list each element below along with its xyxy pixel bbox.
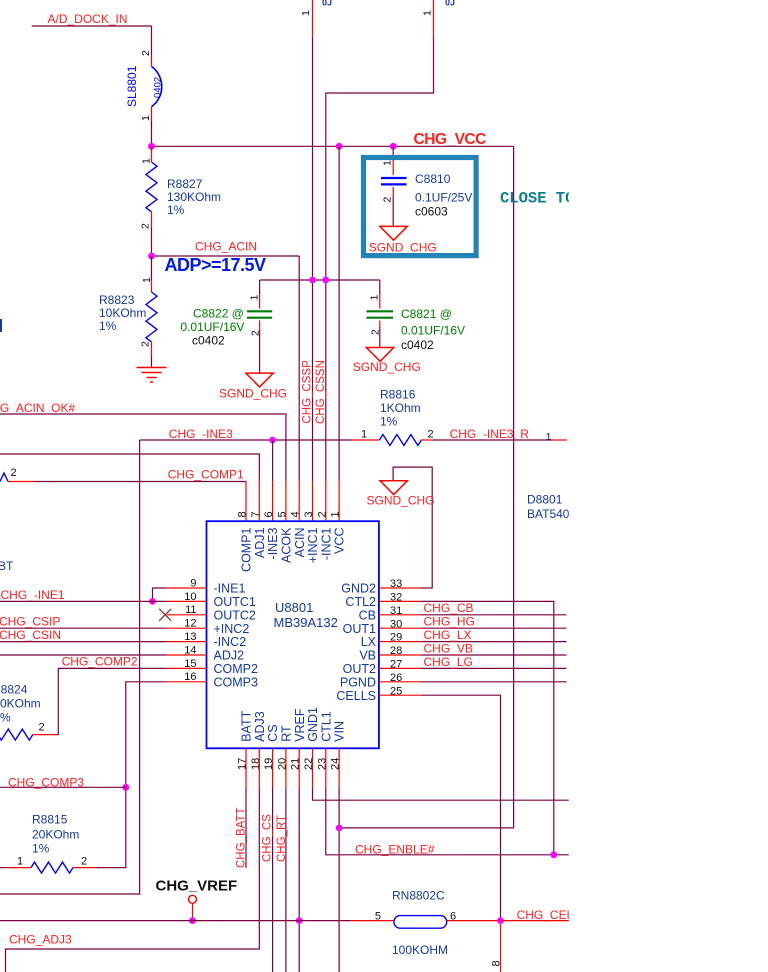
svg-text:C8821 @: C8821 @ xyxy=(401,307,452,321)
svg-text:0.01UF/16V: 0.01UF/16V xyxy=(401,324,465,338)
resistor R8827 body xyxy=(146,162,157,212)
svg-text:PGND: PGND xyxy=(340,675,376,689)
svg-text:CHG_ACIN_OK#: CHG_ACIN_OK# xyxy=(0,401,76,415)
wire net of pin 27 to right edge xyxy=(421,667,567,669)
svg-text:CHG_CS: CHG_CS xyxy=(262,814,274,862)
junction VIN at CHG_VCC xyxy=(336,825,343,832)
ic U8801 pin 33 stub xyxy=(379,587,421,589)
svg-text:CHG_VREF: CHG_VREF xyxy=(156,878,238,895)
svg-text:1%: 1% xyxy=(167,203,185,217)
svg-text:2: 2 xyxy=(382,197,394,203)
svg-text:10KOhm: 10KOhm xyxy=(99,306,146,320)
svg-text:17: 17 xyxy=(237,758,249,770)
svg-text:CTL2: CTL2 xyxy=(345,595,376,609)
resistor R8823 pin 2 stub xyxy=(151,342,153,356)
svg-text:R8815: R8815 xyxy=(32,813,68,827)
junction CHG_ACIN xyxy=(148,253,155,260)
resistor R8824 pin 2 stub xyxy=(33,734,57,736)
wire ADJ2 to left edge xyxy=(0,654,166,656)
svg-text:CHG_CSIP: CHG_CSIP xyxy=(0,614,60,628)
ic U8801 pin 25 stub xyxy=(379,694,421,696)
wire VIN pin drop xyxy=(338,788,340,972)
wire CHG_CSSN jog xyxy=(326,38,434,481)
wire CHG_CSSN top stub pin 1 of offsheet part xyxy=(433,0,435,38)
svg-text:CLOSE TO: CLOSE TO xyxy=(500,190,574,208)
svg-text:CHG_ADJ3: CHG_ADJ3 xyxy=(9,933,72,947)
wire CHG_VCC horizontal rail xyxy=(152,145,514,147)
wire GND1 to right edge xyxy=(313,788,571,800)
svg-text:2: 2 xyxy=(140,223,152,229)
svg-text:1: 1 xyxy=(361,429,367,441)
svg-text:SL8801: SL8801 xyxy=(125,65,139,107)
svg-text:6: 6 xyxy=(263,511,275,517)
svg-text:8: 8 xyxy=(237,511,249,517)
wire R8815 pin 1 to left edge xyxy=(0,867,7,869)
svg-text:1: 1 xyxy=(17,856,23,868)
svg-text:CHG_CSSP: CHG_CSSP xyxy=(302,360,314,424)
capacitor C8810 plates xyxy=(381,178,407,184)
ic U8801 pin 15 stub xyxy=(166,667,207,669)
svg-text:20: 20 xyxy=(276,758,288,770)
svg-text:1: 1 xyxy=(141,158,153,164)
svg-text:CHG_-INE3: CHG_-INE3 xyxy=(169,427,233,441)
svg-text:1: 1 xyxy=(140,115,152,121)
ic U8801 pin 1 stub xyxy=(338,481,340,521)
wire CTL2 to CHG_ENBLE# xyxy=(421,601,554,854)
wire A/D_DOCK_IN drop to SL8801 xyxy=(151,26,153,55)
svg-text:-INE3: -INE3 xyxy=(266,527,280,559)
wire pin 6 drop xyxy=(272,440,274,481)
svg-text:OUT1: OUT1 xyxy=(343,622,376,636)
svg-text:7: 7 xyxy=(250,511,262,517)
svg-text:COMP3: COMP3 xyxy=(214,675,259,689)
ic U8801 pin 8 stub xyxy=(245,481,247,521)
svg-text:CHG_HG: CHG_HG xyxy=(424,615,475,629)
ic U8801 pin 5 stub xyxy=(285,481,287,521)
wire CHG_COMP2 xyxy=(57,668,166,734)
svg-text:20KOhm: 20KOhm xyxy=(32,828,79,842)
ic U8801 pin 17 stub xyxy=(245,748,247,788)
junction CHG_-INE3 at pin 6 xyxy=(269,437,276,444)
ic U8801 pin 32 stub xyxy=(379,600,421,602)
svg-text:1: 1 xyxy=(141,277,153,283)
svg-text:R8827: R8827 xyxy=(167,177,203,191)
svg-text:CHG_-INE1: CHG_-INE1 xyxy=(1,588,65,602)
svg-text:0J: 0J xyxy=(445,0,455,8)
ic U8801 pin 30 stub xyxy=(379,627,421,629)
capacitor C8822 pin 2 stub xyxy=(259,321,261,331)
wire C8821 to ground xyxy=(379,327,381,348)
op-amp controller U8801 body xyxy=(207,521,379,748)
svg-text:1%: 1% xyxy=(380,415,398,429)
svg-text:SGND_CHG: SGND_CHG xyxy=(367,494,435,508)
ic U8801 pin 21 stub xyxy=(298,748,300,788)
wire CHG_COMP3 to left edge xyxy=(0,786,126,788)
wire decoupling bus xyxy=(260,279,380,281)
svg-text:OUT2: OUT2 xyxy=(343,662,376,676)
capacitor C8810 top wire xyxy=(392,146,394,158)
ic U8801 pin 29 stub xyxy=(379,641,421,643)
wire CHG_COMP1 xyxy=(35,480,246,482)
svg-text:5: 5 xyxy=(375,911,381,923)
svg-text:GND1: GND1 xyxy=(306,707,320,742)
resistor network RN8802C pin 5 stub xyxy=(350,920,394,922)
wire net of pin 29 to right edge xyxy=(421,641,567,643)
resistor R8815 body xyxy=(31,862,73,873)
ic U8801 pin 12 stub xyxy=(166,627,207,629)
svg-text:A/D_DOCK_IN: A/D_DOCK_IN xyxy=(48,12,128,26)
svg-text:C8810: C8810 xyxy=(415,172,451,186)
wire net of pin 28 to right edge xyxy=(421,654,567,656)
svg-text:2: 2 xyxy=(140,50,152,56)
svg-text:4: 4 xyxy=(290,511,302,517)
svg-text:CHG_ACIN: CHG_ACIN xyxy=(195,240,257,254)
svg-text:130KOhm: 130KOhm xyxy=(167,190,221,204)
svg-text:CHG_RT: CHG_RT xyxy=(276,815,288,862)
svg-text:CHG_COMP1: CHG_COMP1 xyxy=(168,468,244,482)
junction bus at CHG_CSSP xyxy=(309,277,316,284)
svg-text:1%: 1% xyxy=(99,319,117,333)
svg-text:CHG_CSSN: CHG_CSSN xyxy=(315,360,327,424)
svg-text:2: 2 xyxy=(140,341,152,347)
ic U8801 pin 10 stub xyxy=(166,600,207,602)
svg-text:10KOhm: 10KOhm xyxy=(0,697,41,711)
svg-text:5: 5 xyxy=(276,511,288,517)
wire CHG_-INE3_R xyxy=(433,439,554,441)
svg-text:1: 1 xyxy=(382,160,394,166)
svg-text:+INC1: +INC1 xyxy=(306,527,320,563)
wire net of pin 30 to right edge xyxy=(421,627,567,629)
svg-text:SGND_CHG: SGND_CHG xyxy=(353,360,421,374)
svg-text:CELLS: CELLS xyxy=(336,689,376,703)
wire VREF pin drop xyxy=(298,788,300,972)
svg-text:2: 2 xyxy=(11,467,17,479)
highlight box around C8810 xyxy=(364,158,477,256)
ic U8801 pin 22 stub xyxy=(312,748,314,788)
ic U8801 pin 7 stub xyxy=(258,481,260,521)
svg-text:1KOhm: 1KOhm xyxy=(380,401,421,415)
svg-text:OUTC2: OUTC2 xyxy=(214,608,256,622)
svg-text:OUTC1: OUTC1 xyxy=(214,595,256,609)
wire CHG_ACIN horizontal xyxy=(152,255,300,257)
capacitor C8822 top wire xyxy=(259,280,261,294)
power symbol SGND_CHG triangle at GND2 xyxy=(380,481,407,495)
svg-text:1: 1 xyxy=(249,295,261,301)
svg-text:18: 18 xyxy=(250,758,262,770)
wire CHG_ACIN drop to pin 4 xyxy=(298,256,300,481)
svg-text:CHG_ENBLE#: CHG_ENBLE# xyxy=(355,843,435,857)
wire CHG_-INE3 horizontal xyxy=(140,439,352,441)
wire CHG_-INE1 xyxy=(0,600,166,602)
svg-text:22: 22 xyxy=(303,758,315,770)
svg-text:SGND_CHG: SGND_CHG xyxy=(219,387,287,401)
wire CHG_CSSP top stub pin 1 of offsheet part xyxy=(312,0,314,38)
wire CHG_ACIN to R8823 xyxy=(151,256,153,280)
svg-text:0.1UF/25V: 0.1UF/25V xyxy=(415,190,472,204)
svg-text:3: 3 xyxy=(303,511,315,517)
svg-text:1%: 1% xyxy=(32,842,50,856)
svg-text:19: 19 xyxy=(263,758,275,770)
diode D8801 pin 1 stub xyxy=(554,439,568,441)
svg-text:+INC2: +INC2 xyxy=(214,622,250,636)
fuse SL8801 pin 2 stub xyxy=(151,55,153,66)
wire GND2 hook to SGND_CHG xyxy=(393,467,432,588)
resistor R8823 body xyxy=(146,292,157,342)
no-connect X at pin 11 xyxy=(159,609,171,621)
wire CHG_-INE3 riser to left edge xyxy=(0,440,140,894)
junction CHG_VREF terminal xyxy=(189,917,196,924)
svg-text:LX: LX xyxy=(361,635,377,649)
svg-text:BT: BT xyxy=(0,559,14,573)
svg-text:ACIN: ACIN xyxy=(293,528,307,558)
junction CHG_VCC at C8810 xyxy=(390,143,397,150)
capacitor C8821 top wire xyxy=(379,280,381,294)
svg-text:-INC2: -INC2 xyxy=(214,635,247,649)
ic U8801 pin 6 stub xyxy=(272,481,274,521)
capacitor C8821 plates xyxy=(367,311,394,317)
fuse SL8801 arc body xyxy=(152,66,162,106)
svg-text:BATT: BATT xyxy=(240,710,254,741)
junction CHG_VCC at VCC pin riser xyxy=(336,143,343,150)
svg-text:23: 23 xyxy=(316,758,328,770)
resistor R8827 pin 1 stub xyxy=(151,146,153,162)
svg-text:R8824: R8824 xyxy=(0,683,28,697)
junction CHG_VCC at SL8801 xyxy=(148,143,155,150)
ic U8801 pin 28 stub xyxy=(379,654,421,656)
capacitor C8822 pin 1 stub xyxy=(259,294,261,309)
wire CHG_CSIN xyxy=(0,641,166,643)
svg-text:6: 6 xyxy=(450,911,456,923)
svg-text:2: 2 xyxy=(316,511,328,517)
svg-text:CTL1: CTL1 xyxy=(319,711,333,742)
svg-text:C8822 @: C8822 @ xyxy=(193,307,244,321)
ic U8801 pin 9 stub xyxy=(166,587,207,589)
power symbol SGND_CHG triangle at C8821 xyxy=(366,348,393,362)
wire CELLS to offsheet resistor pin 8 xyxy=(500,921,502,972)
wire CHG_BATT xyxy=(245,788,247,868)
capacitor C8821 pin 1 stub xyxy=(379,294,381,309)
wire A/D_DOCK_IN horizontal xyxy=(32,25,152,27)
svg-text:D8801: D8801 xyxy=(527,493,563,507)
svg-text:0.01UF/16V: 0.01UF/16V xyxy=(180,320,244,334)
svg-text:CHG_-INE3_R: CHG_-INE3_R xyxy=(450,427,530,441)
svg-text:-INC1: -INC1 xyxy=(319,527,333,560)
svg-text:VCC: VCC xyxy=(333,528,347,554)
resistor R8824 (cut) body xyxy=(0,729,33,740)
junction CELLS at RN8802C xyxy=(497,917,504,924)
wire CHG_ADJ3 xyxy=(6,788,260,972)
wire CHG_ACIN_OK# xyxy=(0,414,286,481)
svg-text:1: 1 xyxy=(422,10,434,16)
wire CHG_VREF rail xyxy=(0,920,350,922)
ic U8801 pin 19 stub xyxy=(272,748,274,788)
svg-text:ADJ1: ADJ1 xyxy=(253,527,267,558)
resistor R8823 pin 1 stub xyxy=(151,280,153,292)
svg-text:R8823: R8823 xyxy=(99,293,135,307)
svg-text:CS: CS xyxy=(266,724,280,741)
svg-text:GND2: GND2 xyxy=(341,582,376,596)
resistor (cut) pin 2 stub on CHG_COMP1 xyxy=(8,481,35,483)
svg-text:ADJ2: ADJ2 xyxy=(214,649,245,663)
wire CHG_CSIP xyxy=(0,627,166,629)
svg-text:CHG_LG: CHG_LG xyxy=(424,655,473,669)
wire CHG_CSSP vertical xyxy=(312,38,314,481)
ic U8801 pin 27 stub xyxy=(379,667,421,669)
resistor R8816 body xyxy=(379,435,421,446)
wire CELLS net xyxy=(421,695,501,920)
svg-text:CHG_BATT: CHG_BATT xyxy=(235,808,247,869)
svg-text:SGND_CHG: SGND_CHG xyxy=(369,241,437,255)
svg-text:c0603: c0603 xyxy=(415,205,448,219)
power symbol SGND_CHG triangle at C8810 xyxy=(380,226,407,240)
svg-text:U8801: U8801 xyxy=(275,600,313,615)
svg-text:VIN: VIN xyxy=(333,721,347,742)
svg-text:100KOHM: 100KOHM xyxy=(392,943,448,957)
ic U8801 pin 4 stub xyxy=(298,481,300,521)
wire CHG_CS xyxy=(272,788,274,972)
wire C8822 to ground xyxy=(259,330,261,373)
svg-text:COMP1: COMP1 xyxy=(240,527,254,572)
ic U8801 pin 11 stub xyxy=(167,614,207,616)
resistor R8827 pin 2 stub xyxy=(151,212,153,227)
resistor (cut) at left edge on CHG_COMP1 xyxy=(0,473,8,482)
resistor R8815 pin 2 stub xyxy=(73,867,97,869)
wire CHG_VCC vertical right rail xyxy=(513,146,515,828)
wire R8827 to CHG_ACIN junction xyxy=(151,227,153,256)
svg-text:COMP2: COMP2 xyxy=(214,662,259,676)
junction CHG_ENBLE# at CTL2 xyxy=(550,851,557,858)
power symbol CHG_VREF stub xyxy=(192,903,194,920)
svg-text:CHG_CB: CHG_CB xyxy=(424,601,474,615)
capacitor C8810 pin 1 stub xyxy=(392,158,394,175)
svg-text:VREF: VREF xyxy=(293,708,307,742)
wire net of pin 31 to right edge xyxy=(421,614,567,616)
resistor R8816 pin 2 stub xyxy=(421,439,433,441)
svg-text:CHG_CSIN: CHG_CSIN xyxy=(0,628,61,642)
svg-text:1: 1 xyxy=(330,511,342,517)
ic U8801 pin 24 stub xyxy=(338,748,340,788)
ic U8801 pin 31 stub xyxy=(379,614,421,616)
wire CHG_CELLS to right edge xyxy=(502,920,571,922)
capacitor C8821 pin 2 stub xyxy=(379,321,381,328)
svg-text:ADP>=17.5V: ADP>=17.5V xyxy=(165,255,267,275)
svg-text:CB: CB xyxy=(359,608,376,622)
ic U8801 pin 18 stub xyxy=(258,748,260,788)
svg-text:c0402: c0402 xyxy=(401,338,434,352)
svg-text:2: 2 xyxy=(81,856,87,868)
svg-text:21: 21 xyxy=(290,758,302,770)
svg-text:VB: VB xyxy=(359,649,376,663)
svg-text:1: 1 xyxy=(546,431,552,443)
svg-text:0J: 0J xyxy=(322,0,332,8)
ic U8801 pin 23 stub xyxy=(325,748,327,788)
svg-text:2: 2 xyxy=(427,429,433,441)
wire SL8801 to CHG_VCC junction xyxy=(151,121,153,146)
svg-text:RT: RT xyxy=(280,725,294,742)
svg-text:-INE1: -INE1 xyxy=(214,582,246,596)
wire R8823 to ground xyxy=(151,356,153,368)
junction CHG_COMP3 xyxy=(122,784,129,791)
svg-text:24: 24 xyxy=(330,758,342,770)
resistor R8815 pin 1 stub xyxy=(7,867,31,869)
svg-text:ACOK: ACOK xyxy=(280,527,294,563)
svg-text:2: 2 xyxy=(39,722,45,734)
wire CHG_VCC to VIN pin 24 xyxy=(339,827,513,829)
wire net of pin 26 to right edge xyxy=(421,681,567,683)
svg-text:R8816: R8816 xyxy=(380,388,416,402)
capacitor C8822 plates xyxy=(247,311,272,317)
svg-text:1%: 1% xyxy=(0,711,11,725)
wire to pin 7 ADJ1 xyxy=(0,454,259,481)
ic U8801 pin 16 stub xyxy=(166,681,207,683)
svg-text:1: 1 xyxy=(369,295,381,301)
ic U8801 pin 3 stub xyxy=(312,481,314,521)
power symbol CHG_VREF circle xyxy=(189,895,197,903)
capacitor C8810 pin 2 stub xyxy=(392,187,394,196)
offsheet glyph fragment left edge xyxy=(0,319,2,332)
svg-text:CHG_VB: CHG_VB xyxy=(424,641,473,655)
svg-text:c0402: c0402 xyxy=(192,334,225,348)
svg-text:MB39A132: MB39A132 xyxy=(274,615,338,630)
svg-text:CHG_VCC: CHG_VCC xyxy=(414,131,487,148)
ic U8801 pin 14 stub xyxy=(166,654,207,656)
ic U8801 pin 26 stub xyxy=(379,681,421,683)
wire COMP3 to riser xyxy=(97,682,166,868)
svg-text:8: 8 xyxy=(491,960,503,966)
resistor R8816 pin 1 stub xyxy=(352,439,379,441)
junction bus at CHG_CSSN xyxy=(322,277,329,284)
svg-text:0402: 0402 xyxy=(153,77,164,98)
resistor network RN8802C body xyxy=(394,916,447,929)
svg-text:CHG_COMP2: CHG_COMP2 xyxy=(62,655,138,669)
svg-text:1: 1 xyxy=(300,10,312,16)
ic U8801 pin 2 stub xyxy=(325,481,327,521)
white crop mask on right side xyxy=(569,0,768,972)
fuse SL8801 pin 1 stub xyxy=(151,107,153,121)
ic U8801 pin 20 stub xyxy=(285,748,287,788)
wire CHG_RT xyxy=(285,788,287,972)
wire VCC pin riser xyxy=(338,146,340,481)
power symbol SGND_CHG triangle at C8822 xyxy=(246,373,273,387)
wire pin 9 hook to CHG_-INE1 xyxy=(153,588,167,601)
junction VREF at CHG_VREF rail xyxy=(296,917,303,924)
wire CTL1 to CHG_ENBLE# xyxy=(326,788,570,855)
junction pin 9 on CHG_-INE1 xyxy=(149,598,156,605)
ground earth symbol at R8823 xyxy=(137,368,167,383)
wire C8810 to ground xyxy=(392,196,394,226)
svg-text:CHG_LX: CHG_LX xyxy=(424,628,472,642)
svg-text:RN8802C: RN8802C xyxy=(392,889,445,903)
resistor network RN8802C pin 6 stub xyxy=(447,920,502,922)
ic U8801 pin 13 stub xyxy=(166,641,207,643)
svg-text:ADJ3: ADJ3 xyxy=(253,711,267,742)
